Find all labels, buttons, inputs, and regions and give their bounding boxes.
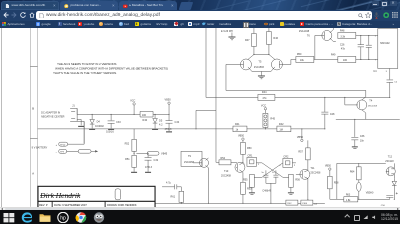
wire vertical bus [215,28,217,162]
zener D5 [152,114,163,129]
capacitor C32 [145,152,159,172]
capacitor C36 [351,118,365,148]
wire top rail [206,96,390,98]
svg-text:2SC2458: 2SC2458 [368,105,378,107]
node VCC [130,99,135,115]
toolbar [0,10,400,21]
transistor T6 [299,28,333,59]
svg-text:NEGATIVE CENTER: NEGATIVE CENTER [41,115,64,118]
frame border left inner line [36,28,38,207]
resonator CR2 [279,155,295,167]
svg-text:R57: R57 [298,150,303,153]
svg-text:hp: hp [60,215,66,221]
svg-text:C360: C360 [302,203,308,205]
ground T5 [258,75,265,78]
svg-text:CR1: CR1 [247,154,253,157]
svg-text:C2: C2 [394,81,398,83]
transistor T9 [181,151,209,203]
svg-text:R50: R50 [247,146,252,149]
svg-text:CR2: CR2 [283,155,289,158]
resistor R50 [296,52,314,61]
resistor R42 [277,122,291,131]
transistor T5 [226,58,291,74]
svg-text:C32: C32 [154,158,159,161]
wire collectors [248,54,275,59]
svg-text:100: 100 [343,59,348,62]
capacitor C34 [165,114,180,131]
wire bottom rail [155,202,325,204]
svg-text:2SC2458: 2SC2458 [184,160,195,163]
svg-text:C28: C28 [330,112,335,115]
svg-text:2SC2458: 2SC2458 [310,171,321,174]
omnibox [36,11,372,20]
resistor R51 [125,151,137,172]
svg-text:B: B [32,106,34,110]
svg-text:VB5H0: VB5H0 [366,191,374,194]
node VB50 [165,98,172,115]
svg-text:R48: R48 [340,29,345,32]
connector J1 [70,104,77,121]
svg-text:R49: R49 [331,53,336,56]
resistor R47 [245,28,256,55]
svg-text:VB45: VB45 [161,152,168,155]
svg-text:7: 7 [375,59,377,61]
svg-text:R51: R51 [125,157,130,160]
node VB50 c [238,134,245,142]
svg-text:DC ADAPTER IN: DC ADAPTER IN [41,111,60,114]
svg-text:VCC: VCC [261,104,266,107]
svg-text:R63: R63 [346,193,351,196]
capacitor C26 [340,34,364,59]
svg-text:R45: R45 [270,117,275,120]
frame tick upper [30,65,37,67]
resistor R48 [333,29,377,41]
node VB50 d [325,164,332,176]
extension icons right of omnibox [374,12,379,19]
node VB50 tap [297,128,304,141]
svg-text:THAT'S THE VALUE IN THE "OTHER: THAT'S THE VALUE IN THE "OTHER" VERSION. [53,70,117,74]
capacitor C28 [321,96,335,129]
svg-text:2SK118: 2SK118 [385,159,394,162]
capacitor C39 [162,181,181,189]
tab 3 [119,1,177,10]
svg-text:R50: R50 [297,52,302,55]
svg-text:VB50: VB50 [238,134,245,137]
logo Dirk Hendrik [39,188,120,199]
title block text [39,202,137,206]
svg-text:1n: 1n [261,171,264,173]
frame border left outer line [29,28,31,207]
svg-text:100/16: 100/16 [106,130,114,133]
horizontal scrollbar [0,207,400,212]
svg-text:1n: 1n [272,171,275,173]
svg-text:R58: R58 [334,181,339,184]
ground at J1 [77,119,84,126]
svg-text:T6: T6 [307,34,311,37]
wire bottom right rail [330,198,390,200]
resistor R40 [140,111,153,121]
resistor R58 [328,176,339,199]
svg-text:R44: R44 [262,90,267,93]
transistor T10 [221,162,245,177]
resistor R61 [171,186,184,203]
resistor R52 [125,128,137,150]
svg-text:VB50: VB50 [165,98,172,101]
net tag VB45 [136,151,167,155]
resistor R44 [258,90,275,99]
diode D4 [89,114,104,129]
capacitor C50 [381,192,398,206]
resistor R57 [298,140,310,170]
svg-text:VCC: VCC [130,99,135,102]
svg-text:(2): (2) [314,203,317,205]
wire power rail [77,113,169,115]
transistor T4 [344,90,377,119]
svg-text:R61: R61 [171,195,176,198]
browser tab bar [0,0,400,10]
svg-text:C36: C36 [360,134,365,137]
svg-text:THE AD-9 SEEMS TO EXIST IN 2 V: THE AD-9 SEEMS TO EXIST IN 2 VERSIONS [57,61,116,65]
svg-text:R55: R55 [243,178,248,181]
fuse F1 [78,149,98,153]
new tab button [179,2,193,10]
svg-text:1: 1 [243,163,245,165]
wire rail mid [226,89,366,91]
wire long vertical feed [205,28,207,97]
svg-text:T9: T9 [188,154,192,157]
svg-text:10n: 10n [360,139,365,142]
capacitor C49 [262,170,278,192]
resistor R55 [243,174,255,194]
svg-text:D5: D5 [159,119,163,122]
capacitor C25 [366,34,372,59]
node dot [134,152,135,153]
test point TP9 [56,149,78,154]
trimmer R45 [263,113,276,129]
trimmer RV1 [357,179,362,199]
resistor R54 [216,156,237,164]
resistor R50b [241,142,252,163]
svg-text:J1: J1 [72,104,75,107]
svg-text:R64: R64 [350,170,355,173]
IC U4 MN3102 [373,28,397,72]
svg-text:3.3k: 3.3k [340,35,345,38]
ground top [228,32,235,39]
svg-text:T12: T12 [388,155,393,158]
svg-text:T5: T5 [258,60,262,63]
svg-text:1: 1 [375,35,377,37]
transistor T11 [296,166,321,200]
wire bend [196,110,216,128]
wire gate rail [337,163,386,199]
taskbar [0,210,400,224]
svg-text:4.7µ: 4.7µ [166,181,171,184]
node dot [195,128,196,129]
svg-text:2SC2458: 2SC2458 [221,174,232,177]
svg-text:9 V BATTERY: 9 V BATTERY [32,146,48,149]
svg-text:TP10: TP10 [60,144,66,146]
bookmarks bar [0,21,400,28]
svg-text:T11: T11 [310,166,315,169]
wire caps common [266,183,276,204]
resistor R62 [286,200,298,205]
svg-text:47p: 47p [341,47,346,50]
svg-text:2SC1583: 2SC1583 [254,65,265,68]
tab 1 [1,1,59,10]
svg-text:C34: C34 [175,120,180,123]
capacitor C27 [386,68,397,98]
resistor R64 [350,163,361,179]
svg-text:100: 100 [142,113,147,116]
svg-text:R42: R42 [279,122,284,125]
content with schematic [0,28,400,207]
svg-text:2SA1048: 2SA1048 [299,29,310,32]
node VCC tap [261,104,267,113]
resonator CR1 [243,154,259,166]
svg-text:−: − [56,151,58,154]
resistor R41 [233,122,247,131]
node dot [111,113,112,114]
svg-text:MN3102: MN3102 [380,41,390,44]
svg-text:1M: 1M [279,128,282,131]
svg-text:R56: R56 [295,178,300,181]
svg-text:47/6.3: 47/6.3 [165,127,173,130]
wire left base bus [225,64,227,90]
svg-text:A: A [32,171,34,175]
svg-text:R53: R53 [247,187,252,190]
test point TP10 [56,121,84,147]
svg-text:R40: R40 [143,118,148,121]
svg-text:R46: R46 [273,36,278,39]
capacitor C48 [261,170,268,183]
frame tick lower [30,137,37,139]
transistor T12 [385,155,395,178]
svg-text:R54: R54 [220,156,225,159]
svg-text:E 9.26 MH: E 9.26 MH [221,29,233,32]
svg-text:U4: U4 [373,69,377,72]
svg-text:T10: T10 [224,169,229,172]
wire lower rail [38,127,325,129]
svg-text:T4: T4 [369,99,373,102]
capacitor C360 [301,200,317,205]
note text [53,61,168,74]
tab 2 [60,1,118,10]
svg-text:1.8k: 1.8k [346,198,351,201]
svg-text:4.2: 4.2 [159,123,163,126]
diode D8 [392,178,397,200]
svg-text:Dirk Hendrik: Dirk Hendrik [39,190,81,199]
label DC adapter [41,111,64,118]
svg-text:+: + [56,143,58,146]
svg-text:1N4002: 1N4002 [95,124,104,127]
svg-text:C33: C33 [116,120,121,123]
svg-text:2: 2 [258,163,260,165]
svg-text:5: 5 [386,70,388,72]
resistor R46 [267,28,279,55]
window controls [372,1,379,6]
resistor R56 [288,174,301,194]
title block [38,186,155,207]
resistor R49 [314,53,378,62]
svg-text:C26: C26 [340,43,345,46]
capacitor C33 [106,114,121,133]
wire right base up [291,59,296,64]
resistor R53b [241,172,252,204]
wire rail right [336,118,400,120]
node dot [92,113,93,114]
svg-text:VB50: VB50 [297,135,304,138]
node dot [155,113,156,114]
wire J1 to battery plus [77,121,84,143]
wire cross coupling [252,162,296,176]
resistor R63 [344,193,358,201]
svg-text:C48&49: C48&49 [262,189,271,192]
svg-text:R52: R52 [125,142,130,145]
svg-text:2: 2 [294,164,296,166]
svg-text:D4: D4 [97,120,101,123]
svg-text:VB50: VB50 [325,164,332,167]
svg-text:WHEN HAVING A COMPONENT WITH A: WHEN HAVING A COMPONENT WITH A DIFFERENT… [55,66,168,70]
svg-text:R41: R41 [235,122,240,125]
svg-text:47/6.3: 47/6.3 [145,165,153,168]
svg-text:R47: R47 [245,38,250,41]
